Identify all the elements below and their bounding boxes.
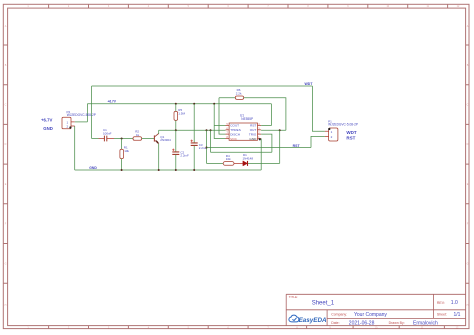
node ground C2 [175, 169, 177, 171]
capacitor C2 polarized [172, 149, 189, 158]
svg-text:1N4148: 1N4148 [243, 156, 254, 160]
node main / TRIG drop [210, 129, 212, 131]
wire R1 top [121, 139, 123, 150]
svg-text:G: G [5, 262, 7, 265]
svg-text:COUT: COUT [230, 124, 239, 128]
wire Q1 emitter to ground [158, 144, 160, 171]
svg-text:G: G [467, 262, 469, 265]
wire OUT pin line [261, 129, 286, 131]
svg-text:C: C [467, 104, 469, 107]
svg-text:EasyEDA: EasyEDA [299, 317, 327, 324]
svg-text:TRIG: TRIG [249, 132, 257, 136]
wire C2 top [175, 130, 177, 152]
wire R1 bottom [121, 159, 123, 170]
capacitor C1 [92, 128, 114, 141]
svg-text:+6.7V: +6.7V [41, 118, 52, 123]
wire vertical main to TRIG line [210, 130, 212, 152]
wire TRIG long line [211, 151, 272, 153]
svg-text:Sheet_1: Sheet_1 [312, 301, 335, 307]
svg-text:1.5M: 1.5M [178, 111, 185, 115]
svg-text:WDT: WDT [305, 82, 314, 86]
wire ground rail [75, 169, 262, 171]
wire DISCH up to R6 [219, 98, 226, 134]
resistor R6 [235, 88, 243, 99]
wire R4 to D1 [234, 162, 243, 164]
frame ticks bottom [49, 326, 445, 329]
wire +V rail [87, 103, 271, 105]
diode D1 1N4148 [243, 153, 254, 166]
svg-text:NE555P: NE555P [241, 117, 253, 121]
wire WDT top rail [92, 85, 313, 87]
resistor R5 [174, 108, 185, 120]
svg-text:WDT: WDT [346, 130, 356, 135]
pin stubs right [258, 125, 262, 138]
svg-text:VCC: VCC [230, 137, 237, 141]
wire C3 bottom [193, 146, 195, 170]
svg-text:Drawn By:: Drawn By: [389, 321, 405, 325]
svg-text:2N3904: 2N3904 [160, 138, 171, 142]
wire RST long line [207, 147, 312, 149]
wire R4 line left [207, 162, 224, 164]
wire R5 bottom [175, 120, 177, 130]
svg-text:C: C [5, 104, 7, 107]
wire P2 pin1 up [86, 104, 88, 122]
connector P2 [62, 110, 96, 129]
wire R5 top [175, 104, 177, 112]
node VCC feed on +V rail [213, 103, 215, 105]
wire top rail left drop to C1 [91, 86, 93, 139]
svg-text:Sheet:: Sheet: [437, 313, 447, 317]
frame zone letters left [5, 25, 7, 307]
wire +V down to VCC pin [214, 104, 225, 139]
wire R6 line left [219, 97, 235, 99]
svg-text:1.0: 1.0 [451, 300, 458, 306]
svg-text:D: D [5, 143, 7, 146]
svg-text:GND: GND [43, 126, 53, 131]
node ground R1 [121, 169, 123, 171]
resistor R4 [223, 154, 234, 165]
svg-text:REV:: REV: [437, 301, 445, 305]
svg-text:100nF: 100nF [103, 131, 112, 135]
svg-text:DISCH: DISCH [230, 132, 240, 136]
frame ticks left [3, 45, 7, 283]
svg-text:+6.7V: +6.7V [108, 100, 117, 104]
node ground Q1 [158, 169, 160, 171]
svg-text:10k: 10k [226, 157, 231, 161]
wire P2 pin2 to ground rail [74, 126, 76, 170]
svg-text:RST: RST [250, 124, 256, 128]
svg-text:2.2mF: 2.2mF [180, 154, 189, 158]
connector P1 [325, 119, 358, 141]
wire TRIG pin right and down [261, 134, 272, 152]
wire R2 to Q1 base [142, 138, 154, 140]
wire GND pin down to ground rail [260, 139, 262, 171]
frame ticks right [466, 45, 469, 283]
EasyEDA logo [289, 315, 299, 322]
wire branch to COUT pin [214, 124, 225, 126]
resistor R1 [120, 146, 130, 159]
wire C2 bottom [175, 155, 177, 170]
resistor R2 [133, 130, 142, 141]
capacitor C3 polarized [191, 140, 208, 151]
svg-text:H: H [5, 304, 7, 307]
svg-text:Ermalovich: Ermalovich [413, 320, 438, 326]
node RST tap [206, 147, 208, 149]
svg-text:TITLE:: TITLE: [289, 295, 298, 299]
frame zone numbers bottom [27, 326, 459, 329]
wire Q1 collector to main node [158, 130, 160, 134]
transistor Q1 [154, 134, 171, 144]
svg-text:1k: 1k [136, 133, 140, 137]
node ground C3 [193, 169, 195, 171]
wire C3 top [193, 104, 195, 143]
node OUT feedback [279, 129, 281, 131]
svg-text:H: H [467, 304, 469, 307]
svg-text:RST: RST [293, 144, 301, 148]
title block [286, 294, 465, 326]
svg-text:WJ2EDGVC-5.08-2P: WJ2EDGVC-5.08-2P [328, 123, 358, 127]
node C3 on +V rail [193, 103, 195, 105]
wire RST line up to P1 pin2 [311, 136, 325, 147]
svg-text:2.2k: 2.2k [236, 92, 242, 96]
frame zone letters right [467, 25, 469, 307]
node R5/C2 on +V rail [175, 103, 177, 105]
wire D1 to OUT drop [248, 162, 280, 164]
node main/R5/C2 [175, 129, 177, 131]
frame zone numbers top [27, 5, 460, 8]
wire P2 pin1 horizontal [75, 121, 88, 123]
wire vertical main to R4 line [206, 130, 208, 163]
svg-text:WJ2EDGVC-508-2P: WJ2EDGVC-508-2P [67, 113, 96, 117]
svg-text:Your Company: Your Company [354, 312, 387, 318]
wire main THRES line [159, 129, 226, 131]
node junction C1/R1/R2 [121, 138, 123, 140]
node main / RST-R4 drop [206, 129, 208, 131]
svg-text:GND: GND [249, 137, 257, 141]
IC U1 NE555P [226, 113, 262, 140]
pin stubs left [226, 125, 230, 138]
svg-text:Date:: Date: [331, 321, 339, 325]
wire R6 line right to OUT [244, 98, 286, 131]
svg-text:1/1: 1/1 [454, 312, 461, 318]
wire OUT down to D1 line [279, 130, 281, 163]
wire RST pin to +V drop [261, 104, 271, 126]
svg-text:10k: 10k [124, 149, 129, 153]
frame ticks top [49, 4, 448, 8]
svg-text:GND: GND [89, 166, 97, 170]
svg-text:Company:: Company: [331, 313, 347, 317]
wire WDT drop to P1 pin1 [312, 86, 325, 131]
svg-text:D: D [467, 143, 469, 146]
svg-text:2021-06-28: 2021-06-28 [349, 320, 375, 326]
wire C1 to junction [114, 138, 133, 140]
svg-text:RST: RST [346, 136, 355, 141]
